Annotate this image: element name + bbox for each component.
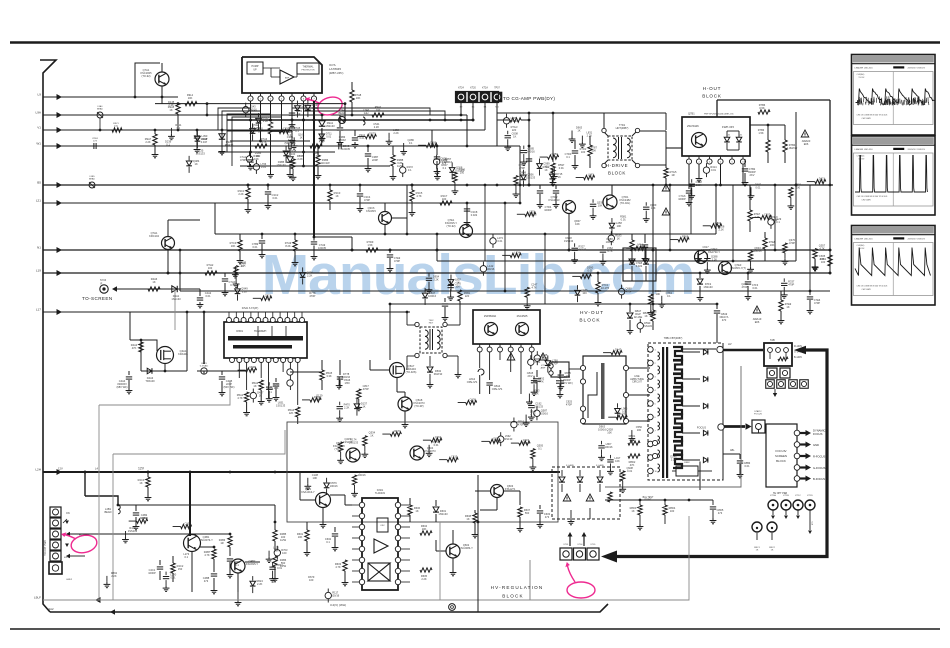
wire v432 bbox=[431, 130, 434, 147]
wire step left2 bbox=[113, 430, 285, 454]
transistor Q7E2 bbox=[695, 247, 721, 264]
res R4B5 bbox=[273, 521, 287, 550]
res R3C1 bbox=[238, 184, 252, 213]
svg-text:0.01: 0.01 bbox=[515, 253, 521, 257]
svg-text:1SS133: 1SS133 bbox=[701, 248, 711, 252]
connector CN9 TO CG-AMP bbox=[456, 87, 502, 109]
wire bus N1 bbox=[37, 246, 830, 254]
thick wire x190 bbox=[189, 471, 192, 536]
wire y234 bbox=[215, 233, 716, 235]
svg-text:KRC104: KRC104 bbox=[149, 234, 159, 238]
wire pin5 drop bbox=[291, 101, 294, 121]
svg-text:H-DRIVE: H-DRIVE bbox=[606, 163, 628, 168]
TO CRT sub boxes bbox=[767, 368, 790, 378]
cap C4B2 bbox=[133, 505, 149, 530]
wire bundle ic7a-left bbox=[218, 108, 282, 166]
svg-text:1K: 1K bbox=[253, 384, 256, 388]
IC U601 opamp bbox=[374, 539, 388, 553]
svg-text:473: 473 bbox=[204, 579, 209, 583]
transistor Q604 bbox=[410, 446, 436, 460]
cap C602 bbox=[325, 527, 339, 551]
svg-text:KSC815-Y: KSC815-Y bbox=[246, 562, 259, 566]
svg-text:OPE-IVS: OPE-IVS bbox=[467, 380, 478, 384]
svg-text:10K: 10K bbox=[298, 535, 303, 539]
svg-text:ABL: ABL bbox=[730, 449, 735, 452]
pcb bottom gray return line bbox=[43, 560, 530, 600]
component cluster under IC7A 2 bbox=[250, 123, 437, 180]
component cluster mid band left bbox=[232, 261, 316, 301]
svg-text:100/16: 100/16 bbox=[527, 150, 535, 154]
component cluster right-mid band bbox=[564, 215, 778, 308]
svg-text:0.01: 0.01 bbox=[819, 180, 825, 184]
svg-text:4.7K: 4.7K bbox=[416, 194, 422, 198]
svg-text:1K: 1K bbox=[297, 112, 300, 116]
svg-text:1K: 1K bbox=[466, 517, 469, 521]
TO CRT arrow small bbox=[773, 389, 777, 397]
coil L4B1 bbox=[104, 505, 120, 514]
label TE OPT bbox=[773, 492, 787, 495]
wire bus L21 bbox=[36, 199, 520, 207]
svg-text:100: 100 bbox=[581, 150, 586, 154]
LINE AMP box bbox=[580, 356, 628, 424]
svg-text:4.7K: 4.7K bbox=[607, 249, 613, 253]
wire cn9 drop2 bbox=[472, 102, 475, 121]
svg-text:0.01: 0.01 bbox=[277, 566, 283, 570]
wire pin7 thick drop bbox=[313, 101, 316, 237]
dashed box FLAND bbox=[552, 467, 620, 519]
svg-text:0.5K: 0.5K bbox=[759, 106, 765, 110]
svg-text:BAL TEST: BAL TEST bbox=[643, 496, 654, 499]
svg-text:1SS133: 1SS133 bbox=[526, 176, 536, 180]
wire pin6 drop bbox=[302, 101, 305, 166]
cap C9A8 bbox=[194, 129, 208, 153]
pink ellipse highlight B bbox=[70, 533, 99, 555]
svg-text:GND2: GND2 bbox=[66, 579, 73, 581]
flyback primary pins bbox=[648, 347, 658, 474]
svg-text:1SS133: 1SS133 bbox=[534, 405, 544, 409]
pin circ P5A bbox=[287, 369, 293, 386]
warning W7B bbox=[801, 130, 811, 146]
svg-text:2.2K: 2.2K bbox=[374, 125, 380, 129]
svg-text:1SS133: 1SS133 bbox=[527, 212, 537, 216]
svg-text:(TO-92L): (TO-92L) bbox=[620, 201, 631, 205]
pot RT1B bbox=[781, 495, 791, 519]
IC U7A LA78045 body bbox=[242, 57, 322, 93]
H-OUT pins bbox=[686, 156, 745, 164]
svg-text:KSC2073: KSC2073 bbox=[424, 449, 436, 453]
component cluster heater band bbox=[480, 209, 538, 309]
cap C7D3 bbox=[565, 140, 579, 169]
svg-text:(TO-3P): (TO-3P) bbox=[414, 404, 423, 408]
wire HOUT right rail bbox=[760, 100, 831, 186]
wire v810 texture bbox=[809, 185, 812, 292]
svg-text:02-16E: 02-16E bbox=[634, 315, 643, 319]
svg-text:FWP-3PJ: FWP-3PJ bbox=[722, 125, 735, 129]
res R7D9 bbox=[366, 240, 378, 252]
flyback bottom res bbox=[672, 462, 712, 476]
svg-text:1SS133: 1SS133 bbox=[509, 119, 519, 123]
transistor Q602 bbox=[446, 543, 473, 558]
TO CRT box bbox=[764, 339, 792, 366]
svg-text:2.2K: 2.2K bbox=[168, 103, 174, 107]
wire pin2 drop bbox=[260, 101, 262, 141]
svg-text:F-LAND: F-LAND bbox=[596, 464, 604, 467]
svg-text:100/16: 100/16 bbox=[598, 428, 606, 432]
svg-text:2.2K: 2.2K bbox=[307, 273, 313, 277]
hv-reg outer box bbox=[287, 422, 558, 522]
svg-text:100/16: 100/16 bbox=[358, 473, 366, 477]
node FLAND1 bbox=[652, 440, 657, 458]
svg-text:10K: 10K bbox=[591, 148, 596, 152]
svg-text:1R: 1R bbox=[220, 541, 223, 545]
svg-text:1SS133: 1SS133 bbox=[343, 440, 353, 444]
diode D9A4 bbox=[219, 129, 234, 155]
IC U601 body bbox=[362, 489, 398, 590]
svg-text:100/16: 100/16 bbox=[428, 294, 436, 298]
wire Q7A1 emitter bbox=[161, 86, 164, 104]
cap C9A1 bbox=[352, 130, 366, 148]
wire bundle ic7a-right bbox=[292, 108, 445, 120]
svg-text:L17: L17 bbox=[36, 308, 41, 312]
svg-text:1/2W: 1/2W bbox=[280, 538, 287, 542]
svg-text:IC5A1 6.3T(AT): IC5A1 6.3T(AT) bbox=[242, 307, 259, 310]
svg-text:CH1 5V 0.5MS NS M 500 T/: CH1 5V 0.5MS NS M 500 T/S 0.5US bbox=[857, 286, 888, 288]
cap C7A1 bbox=[240, 152, 254, 170]
IC U601 inner box bbox=[377, 518, 388, 532]
component cluster mid low bbox=[422, 273, 461, 305]
wire y261 bbox=[437, 260, 796, 262]
svg-text:G-FOCUS: G-FOCUS bbox=[813, 466, 826, 470]
svg-text:20MS/DIV 1MS/DIV: 20MS/DIV 1MS/DIV bbox=[907, 68, 925, 70]
transistor Q8A2 bbox=[516, 323, 529, 336]
svg-text:10K: 10K bbox=[185, 524, 190, 528]
svg-text:8.2K: 8.2K bbox=[285, 244, 291, 248]
res R4B3 bbox=[219, 536, 232, 556]
res R5A5 bbox=[320, 360, 333, 390]
svg-text:TO CRT PWB: TO CRT PWB bbox=[44, 540, 47, 556]
svg-text:TAB: TAB bbox=[770, 339, 775, 342]
svg-text:1K: 1K bbox=[300, 135, 303, 139]
wire screen drop bbox=[199, 288, 201, 290]
wire HOUT top bbox=[717, 100, 760, 117]
svg-text:1SS133: 1SS133 bbox=[276, 163, 286, 167]
svg-text:0.01: 0.01 bbox=[535, 360, 541, 364]
cluster t502 parts bbox=[427, 298, 449, 388]
wire v207 bbox=[206, 104, 209, 117]
res R8D1 bbox=[628, 434, 640, 445]
svg-text:1K: 1K bbox=[259, 394, 262, 398]
cap C8A5 bbox=[527, 370, 541, 392]
svg-text:4.7K: 4.7K bbox=[530, 413, 536, 417]
svg-text:FOCUS/: FOCUS/ bbox=[776, 449, 787, 453]
svg-text:0.01: 0.01 bbox=[621, 415, 627, 419]
flyback HV top bbox=[682, 342, 763, 353]
svg-text:0.01: 0.01 bbox=[261, 165, 267, 169]
wire static-dyn bbox=[759, 430, 767, 434]
wire v180 bbox=[179, 250, 182, 291]
top border rule bbox=[10, 41, 940, 44]
warning W8A bbox=[507, 353, 547, 360]
IC U7A pins 1-7 bbox=[248, 93, 317, 101]
thick wire HV route bbox=[614, 350, 827, 557]
thin box around flyback bbox=[605, 366, 741, 487]
wire bottom L9A2 bbox=[47, 607, 115, 615]
res ladder right 3 bbox=[778, 291, 792, 324]
svg-text:100/16: 100/16 bbox=[605, 445, 613, 449]
svg-text:1K: 1K bbox=[285, 129, 288, 133]
wire q4b1 em bbox=[192, 546, 215, 592]
svg-text:0.022: 0.022 bbox=[471, 213, 478, 217]
svg-text:L9A: L9A bbox=[35, 111, 41, 115]
svg-text:100: 100 bbox=[442, 197, 447, 201]
res R3B8 bbox=[390, 146, 404, 180]
diode D7F2 bbox=[697, 273, 714, 301]
svg-text:LEADER LBO-5​16: LEADER LBO-5​16 bbox=[855, 67, 874, 70]
svg-text:L9: L9 bbox=[38, 93, 42, 97]
svg-text:10K: 10K bbox=[616, 351, 621, 355]
svg-text:2SC5446: 2SC5446 bbox=[687, 124, 699, 128]
svg-text:TDA9302H: TDA9302H bbox=[254, 330, 267, 333]
svg-text:0.1: 0.1 bbox=[776, 220, 780, 224]
svg-text:L19: L19 bbox=[36, 269, 41, 273]
svg-text:4.7K: 4.7K bbox=[204, 553, 210, 557]
wire cn9 drop3 bbox=[484, 102, 486, 130]
component cluster under IC7A bbox=[243, 100, 326, 166]
transistor Q7D1 bbox=[603, 195, 631, 209]
to-screen arrow bbox=[112, 286, 117, 292]
svg-text:LEADER LBO-5​16: LEADER LBO-5​16 bbox=[855, 238, 874, 241]
svg-text:473: 473 bbox=[718, 511, 723, 515]
res R9A5 bbox=[168, 103, 180, 130]
svg-text:0.01: 0.01 bbox=[252, 245, 258, 249]
component cluster left of flyback bbox=[545, 348, 628, 432]
wire v440 bottom bbox=[440, 522, 452, 600]
HV-OUT pins bbox=[477, 344, 534, 352]
IC U501 bottom pins bbox=[230, 358, 301, 363]
res R5A1 bbox=[237, 392, 250, 416]
wire v612mid bbox=[611, 185, 613, 195]
svg-text:2.2K: 2.2K bbox=[257, 582, 263, 586]
transistor Q5A7 bbox=[390, 363, 417, 378]
svg-text:KT1B: KT1B bbox=[783, 495, 789, 497]
pink ellipse highlight A bbox=[315, 94, 344, 118]
wire y103 sub-bus bbox=[155, 102, 346, 105]
res R7H2 bbox=[205, 263, 217, 275]
cap C3B7 bbox=[365, 145, 379, 172]
svg-text:4.7K: 4.7K bbox=[552, 155, 558, 159]
gray wire x113 bbox=[112, 454, 114, 600]
res R9A7 bbox=[145, 129, 159, 158]
wire v520 bbox=[519, 146, 522, 204]
svg-text:20MS/DIV 1MS/DIV: 20MS/DIV 1MS/DIV bbox=[907, 149, 925, 151]
svg-text:2.2K: 2.2K bbox=[585, 274, 591, 278]
IC U501 top pins bbox=[227, 318, 305, 323]
component cluster top mid extra bbox=[504, 126, 594, 186]
svg-text:2.2K: 2.2K bbox=[819, 257, 825, 261]
svg-text:10K: 10K bbox=[575, 222, 580, 226]
svg-text:0.01: 0.01 bbox=[621, 217, 627, 221]
res R7G3 bbox=[497, 118, 530, 132]
svg-text:470P: 470P bbox=[741, 285, 747, 289]
label TO CG-AMP PWB(DY) bbox=[503, 96, 555, 101]
component cluster flyback left col bbox=[637, 310, 657, 333]
res R3B6 bbox=[315, 145, 331, 179]
res R3B2 bbox=[310, 144, 322, 158]
component cluster mid-top right of IC7A bbox=[357, 122, 465, 194]
wire v553 bbox=[552, 113, 554, 162]
wire hvout drops bbox=[480, 352, 532, 394]
wire heater bbox=[70, 533, 231, 536]
wire hdrive base bbox=[666, 147, 682, 149]
pot RT1C bbox=[793, 495, 803, 519]
svg-text:1K: 1K bbox=[142, 519, 145, 523]
svg-text:D7E4: D7E4 bbox=[637, 244, 643, 246]
svg-text:1SS133: 1SS133 bbox=[577, 247, 587, 251]
IC U601 top wire bbox=[379, 483, 381, 490]
transformer T7D1 H-drive bbox=[602, 123, 640, 168]
transistor Q7H1 bbox=[149, 231, 174, 250]
svg-text:1K: 1K bbox=[335, 194, 338, 198]
res R607 bbox=[517, 507, 531, 532]
wire t502 bbox=[406, 310, 462, 378]
res R604 bbox=[420, 524, 432, 535]
svg-text:0.01: 0.01 bbox=[627, 469, 633, 473]
wire q603 wiring bbox=[475, 491, 520, 510]
svg-text:1000P: 1000P bbox=[544, 208, 552, 212]
svg-text:B5: B5 bbox=[37, 181, 41, 185]
svg-text:1K: 1K bbox=[544, 168, 547, 172]
label 3.2V WH bbox=[330, 603, 346, 607]
svg-text:T8B1 FBT(4887): T8B1 FBT(4887) bbox=[664, 337, 683, 340]
flyback label bbox=[664, 337, 683, 340]
svg-text:1K: 1K bbox=[195, 162, 198, 166]
svg-text:12V: 12V bbox=[58, 467, 63, 471]
svg-text:100/16: 100/16 bbox=[331, 594, 339, 598]
svg-text:KT1D: KT1D bbox=[807, 495, 813, 497]
to-screen label bbox=[82, 296, 113, 301]
svg-text:10K: 10K bbox=[607, 431, 612, 435]
svg-text:L21: L21 bbox=[36, 199, 41, 203]
ferrite bead L7A4 bbox=[338, 108, 345, 124]
svg-text:L9A1: L9A1 bbox=[97, 105, 103, 108]
svg-text:470P: 470P bbox=[394, 259, 400, 263]
label TO CRT PWB vert bbox=[44, 540, 47, 556]
wire to-screen bbox=[116, 288, 200, 290]
res R5A2 bbox=[252, 380, 265, 405]
wire q602 wiring bbox=[432, 530, 456, 576]
svg-text:1000P: 1000P bbox=[148, 571, 156, 575]
svg-text:100/16: 100/16 bbox=[342, 375, 350, 379]
wire hout r h125 bbox=[750, 124, 785, 127]
res R9L2 bbox=[185, 93, 197, 106]
cap C8B3 bbox=[737, 454, 751, 478]
component cluster right-mid band 2 bbox=[572, 199, 710, 316]
label H-OUT BLOCK bbox=[702, 86, 722, 99]
svg-text:ManualsLib.com: ManualsLib.com bbox=[262, 243, 695, 307]
svg-text:BLOCK: BLOCK bbox=[702, 94, 722, 99]
svg-text:KT2A: KT2A bbox=[482, 87, 488, 90]
svg-text:0.01: 0.01 bbox=[559, 166, 565, 170]
junction dots buses bbox=[84, 119, 832, 474]
svg-text:220P: 220P bbox=[372, 158, 378, 162]
svg-text:470P: 470P bbox=[519, 166, 525, 170]
cap C7G1 bbox=[519, 159, 533, 170]
svg-text:BEAD: BEAD bbox=[97, 108, 103, 111]
wire bus L9 bbox=[38, 93, 178, 101]
pot RT1D bbox=[805, 495, 815, 534]
svg-text:KSC815-Y(T): KSC815-Y(T) bbox=[730, 266, 746, 270]
cap C7H3 bbox=[222, 273, 236, 296]
wire L9 step bbox=[134, 63, 160, 98]
svg-text:10K: 10K bbox=[770, 243, 775, 247]
svg-text:KSC2383-Y: KSC2383-Y bbox=[459, 546, 473, 550]
svg-text:1000P: 1000P bbox=[678, 197, 686, 201]
svg-text:(2KV WF): (2KV WF) bbox=[561, 381, 573, 385]
svg-text:470P: 470P bbox=[814, 301, 820, 305]
svg-text:2.2K: 2.2K bbox=[344, 406, 350, 410]
cap C4B4 bbox=[227, 559, 241, 578]
cap C5A3 bbox=[267, 378, 280, 401]
svg-text:FOCUS: FOCUS bbox=[813, 432, 823, 436]
svg-text:1K: 1K bbox=[521, 174, 524, 178]
svg-text:100/16: 100/16 bbox=[754, 249, 762, 253]
transistor Q3C6 bbox=[366, 206, 391, 225]
wire v796 bbox=[795, 112, 798, 261]
wire h371 bbox=[197, 371, 246, 378]
svg-text:4.7K: 4.7K bbox=[538, 380, 544, 384]
svg-text:2.2K: 2.2K bbox=[263, 119, 269, 123]
svg-text:1/50M: 1/50M bbox=[338, 138, 345, 142]
svg-text:100: 100 bbox=[566, 374, 571, 378]
svg-text:KSC2073-Y: KSC2073-Y bbox=[199, 538, 213, 542]
svg-text:FOCUS: FOCUS bbox=[754, 414, 762, 416]
wire abl bbox=[700, 449, 740, 490]
svg-text:V1: V1 bbox=[37, 126, 41, 130]
wire L17 junction bbox=[203, 311, 206, 314]
svg-text:22-1T5: 22-1T5 bbox=[601, 286, 610, 290]
component cluster lower mid bbox=[458, 397, 549, 470]
svg-text:CH2 50MV: CH2 50MV bbox=[862, 200, 872, 202]
svg-text:100: 100 bbox=[670, 509, 675, 513]
svg-text:41K/1W: 41K/1W bbox=[320, 161, 330, 165]
wire v478 bottom bbox=[477, 475, 480, 612]
svg-text:0.01: 0.01 bbox=[711, 168, 717, 172]
svg-text:0.1: 0.1 bbox=[566, 155, 570, 159]
svg-text:4.7K: 4.7K bbox=[819, 246, 825, 250]
wire hdrive top bbox=[604, 113, 666, 130]
svg-text:0.01: 0.01 bbox=[755, 185, 761, 189]
cap C5A6 bbox=[337, 360, 351, 388]
svg-text:0.01: 0.01 bbox=[326, 135, 332, 139]
svg-text:F-LAND: F-LAND bbox=[566, 464, 574, 467]
cap C3B9 bbox=[434, 145, 448, 175]
label HV-REGULATION BLOCK bbox=[491, 585, 544, 599]
svg-text:2.2K: 2.2K bbox=[242, 290, 248, 294]
svg-text:0.1: 0.1 bbox=[166, 143, 170, 147]
svg-text:1SS133: 1SS133 bbox=[438, 512, 448, 516]
wire cn9 h130 bbox=[432, 129, 485, 131]
svg-text:0.01: 0.01 bbox=[752, 286, 758, 290]
wire y141 bbox=[230, 140, 310, 143]
svg-text:1SS133: 1SS133 bbox=[171, 297, 181, 301]
svg-text:0.01: 0.01 bbox=[497, 239, 503, 243]
res R7A8 bbox=[350, 82, 362, 116]
wire v485 texture bbox=[484, 184, 487, 261]
bus bead L9A bbox=[97, 105, 103, 118]
svg-text:220: 220 bbox=[512, 128, 517, 132]
svg-text:100/16: 100/16 bbox=[330, 484, 338, 488]
svg-text:0.1: 0.1 bbox=[716, 224, 720, 228]
